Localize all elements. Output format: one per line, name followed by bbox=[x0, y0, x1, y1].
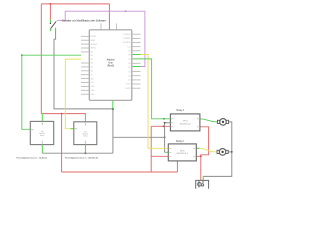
wire red sensor vcc bus bbox=[41, 113, 86, 115]
svg-text:A2: A2 bbox=[91, 58, 93, 61]
svg-text:Sensor: Sensor bbox=[83, 135, 88, 137]
svg-text:(Rev3): (Rev3) bbox=[107, 65, 114, 67]
op IC U1 Arduino Uno box bbox=[89, 30, 132, 101]
svg-text:Relay 1: Relay 1 bbox=[177, 110, 186, 112]
wire gray vertical below IC bbox=[112, 109, 114, 153]
motor M2 bbox=[217, 149, 228, 156]
relay K1 box bbox=[170, 110, 200, 131]
pin green stub IC right yellowwire bbox=[133, 54, 141, 56]
relay K2 box bbox=[168, 141, 196, 161]
node gray relay1 pin2 bbox=[164, 122, 166, 124]
wire red top bus bbox=[41, 3, 109, 5]
pin green stub sensor2 bottom bbox=[84, 145, 86, 154]
motor M1 bbox=[217, 119, 228, 126]
svg-text:A1: A1 bbox=[91, 54, 93, 57]
svg-text:A4: A4 bbox=[91, 66, 93, 69]
svg-text:Feuchtigkeitssensor 1 - Substr: Feuchtigkeitssensor 1 - Substrat bbox=[17, 157, 48, 160]
svg-text:Sensor: Sensor bbox=[40, 135, 45, 137]
wire gray relay pin2 vertical bbox=[164, 123, 166, 153]
wire red to IC top pin bbox=[108, 4, 110, 30]
wire red relay2 pin3 right stub bbox=[196, 155, 201, 157]
sensor box Feuchtigkeitssensor 1 bbox=[30, 121, 53, 144]
wire green relay1 to motor1 bbox=[200, 119, 218, 122]
wire red bottom horizontal bbox=[62, 171, 178, 173]
pin green stub relay2 pin2 bbox=[165, 151, 169, 153]
svg-text:Feuchtigkeitssensor 2 - Oberfl: Feuchtigkeitssensor 2 - Oberfläche bbox=[65, 157, 99, 160]
svg-text:D6: D6 bbox=[128, 63, 130, 65]
svg-text:D10: D10 bbox=[127, 46, 130, 48]
wire yellow relay2 to motor2 bbox=[199, 148, 216, 152]
wire red relay2 pin3 left bbox=[151, 155, 168, 157]
node gray junction relay branch bbox=[164, 136, 166, 138]
wire yellow IC right to relay2 pin1 bbox=[141, 55, 169, 149]
pin green stub sensor1 top bbox=[41, 114, 43, 122]
node red bend relay1 bbox=[163, 125, 165, 127]
wire gray relay1 pin2 stub bbox=[165, 122, 171, 124]
svg-text:Relay 2: Relay 2 bbox=[176, 141, 185, 143]
svg-text:D9: D9 bbox=[128, 51, 130, 53]
svg-text:D5: D5 bbox=[128, 67, 130, 69]
IC right pin labels bbox=[123, 34, 132, 90]
switch S1 bbox=[50, 20, 57, 32]
wire red relay coil vertical bbox=[150, 126, 152, 172]
svg-text:D4: D4 bbox=[128, 71, 130, 73]
svg-text:RESET: RESET bbox=[91, 36, 97, 38]
svg-text:D13/SCK: D13/SCK bbox=[124, 34, 132, 36]
svg-text:SRD-05VDC-SL-C: SRD-05VDC-SL-C bbox=[180, 123, 192, 125]
pin green stub battery right bbox=[202, 176, 204, 180]
svg-text:SP DS: SP DS bbox=[180, 150, 184, 152]
pin green stub sensor1 bottom bbox=[41, 145, 43, 154]
wire green IC left to sensor1 bbox=[22, 55, 81, 129]
svg-text:SP DS: SP DS bbox=[183, 121, 187, 123]
svg-text:SRD-05VDC-SL-C: SRD-05VDC-SL-C bbox=[177, 153, 189, 155]
wire gray sensors ground bus bbox=[42, 152, 113, 154]
IC left pin labels bbox=[91, 36, 98, 96]
svg-text:Schalter zur Modifikation der: Schalter zur Modifikation der Software bbox=[62, 18, 106, 22]
svg-text:D12/MISO: D12/MISO bbox=[123, 38, 132, 40]
wire yellow IC left to sensor2 bbox=[65, 59, 81, 129]
node green bend bbox=[21, 54, 23, 56]
svg-text:D0/RX: D0/RX bbox=[126, 88, 132, 90]
wire red to switch common bbox=[49, 4, 51, 20]
pin green stub IC right magentawire bbox=[133, 66, 141, 68]
sensor box Feuchtigkeitssensor 2 bbox=[74, 122, 97, 145]
wire gray motor return bbox=[203, 122, 232, 176]
node gray junction motor2 bbox=[231, 151, 233, 153]
svg-text:AREF: AREF bbox=[91, 39, 96, 42]
wire red relay1 pin3 right to battery bbox=[200, 127, 209, 181]
pin green stub relay2 pin1 right bbox=[196, 147, 199, 149]
svg-text:Arduino: Arduino bbox=[107, 59, 116, 62]
svg-text:D7: D7 bbox=[128, 59, 130, 61]
wire red up to relay2 bottom bbox=[176, 161, 178, 172]
svg-text:A4/SDA: A4/SDA bbox=[91, 43, 98, 46]
pin green stub IC bottom bbox=[112, 100, 114, 109]
svg-text:D2: D2 bbox=[128, 80, 130, 82]
IC right pins bbox=[132, 34, 141, 88]
wire red down from junction bbox=[61, 114, 63, 172]
svg-text:A5: A5 bbox=[91, 70, 93, 73]
wire gray to relays bbox=[113, 136, 165, 138]
svg-text:3V3: 3V3 bbox=[91, 78, 94, 80]
svg-text:D3: D3 bbox=[128, 75, 130, 77]
svg-text:A3: A3 bbox=[91, 62, 93, 65]
svg-text:Uno: Uno bbox=[108, 63, 113, 65]
node gray junction IC bottom bbox=[112, 108, 114, 110]
svg-text:A5/SCL: A5/SCL bbox=[91, 47, 97, 50]
node red junction top bus bbox=[50, 3, 52, 5]
svg-text:A0: A0 bbox=[91, 51, 93, 54]
IC left pins bbox=[81, 36, 89, 94]
node red junction bbox=[61, 113, 63, 115]
pin green stub sensor2 top bbox=[84, 114, 86, 122]
wire gray motor2 return stub bbox=[228, 151, 232, 153]
node magenta bend bbox=[125, 10, 127, 12]
svg-text:D8: D8 bbox=[128, 55, 130, 57]
wire gray switch output down and bus to IC ground bbox=[54, 29, 113, 109]
wire red left vertical to sensor bus bbox=[40, 4, 42, 114]
wire magenta switch to IC right pin bbox=[57, 11, 145, 66]
battery BT1 bbox=[196, 180, 209, 188]
node red junction battery bbox=[200, 155, 202, 157]
pin green stub sensor2 left bbox=[71, 128, 74, 130]
IC top pins bbox=[100, 23, 102, 29]
wire green IC right to relay1 pin1 bbox=[133, 59, 171, 119]
svg-text:D11/MOSI: D11/MOSI bbox=[123, 42, 131, 44]
node gray junction sensor2 bottom bbox=[85, 152, 87, 154]
wire red relay1 pin3 left bbox=[151, 125, 170, 127]
node green bend relay1 pin1 bbox=[163, 118, 165, 120]
